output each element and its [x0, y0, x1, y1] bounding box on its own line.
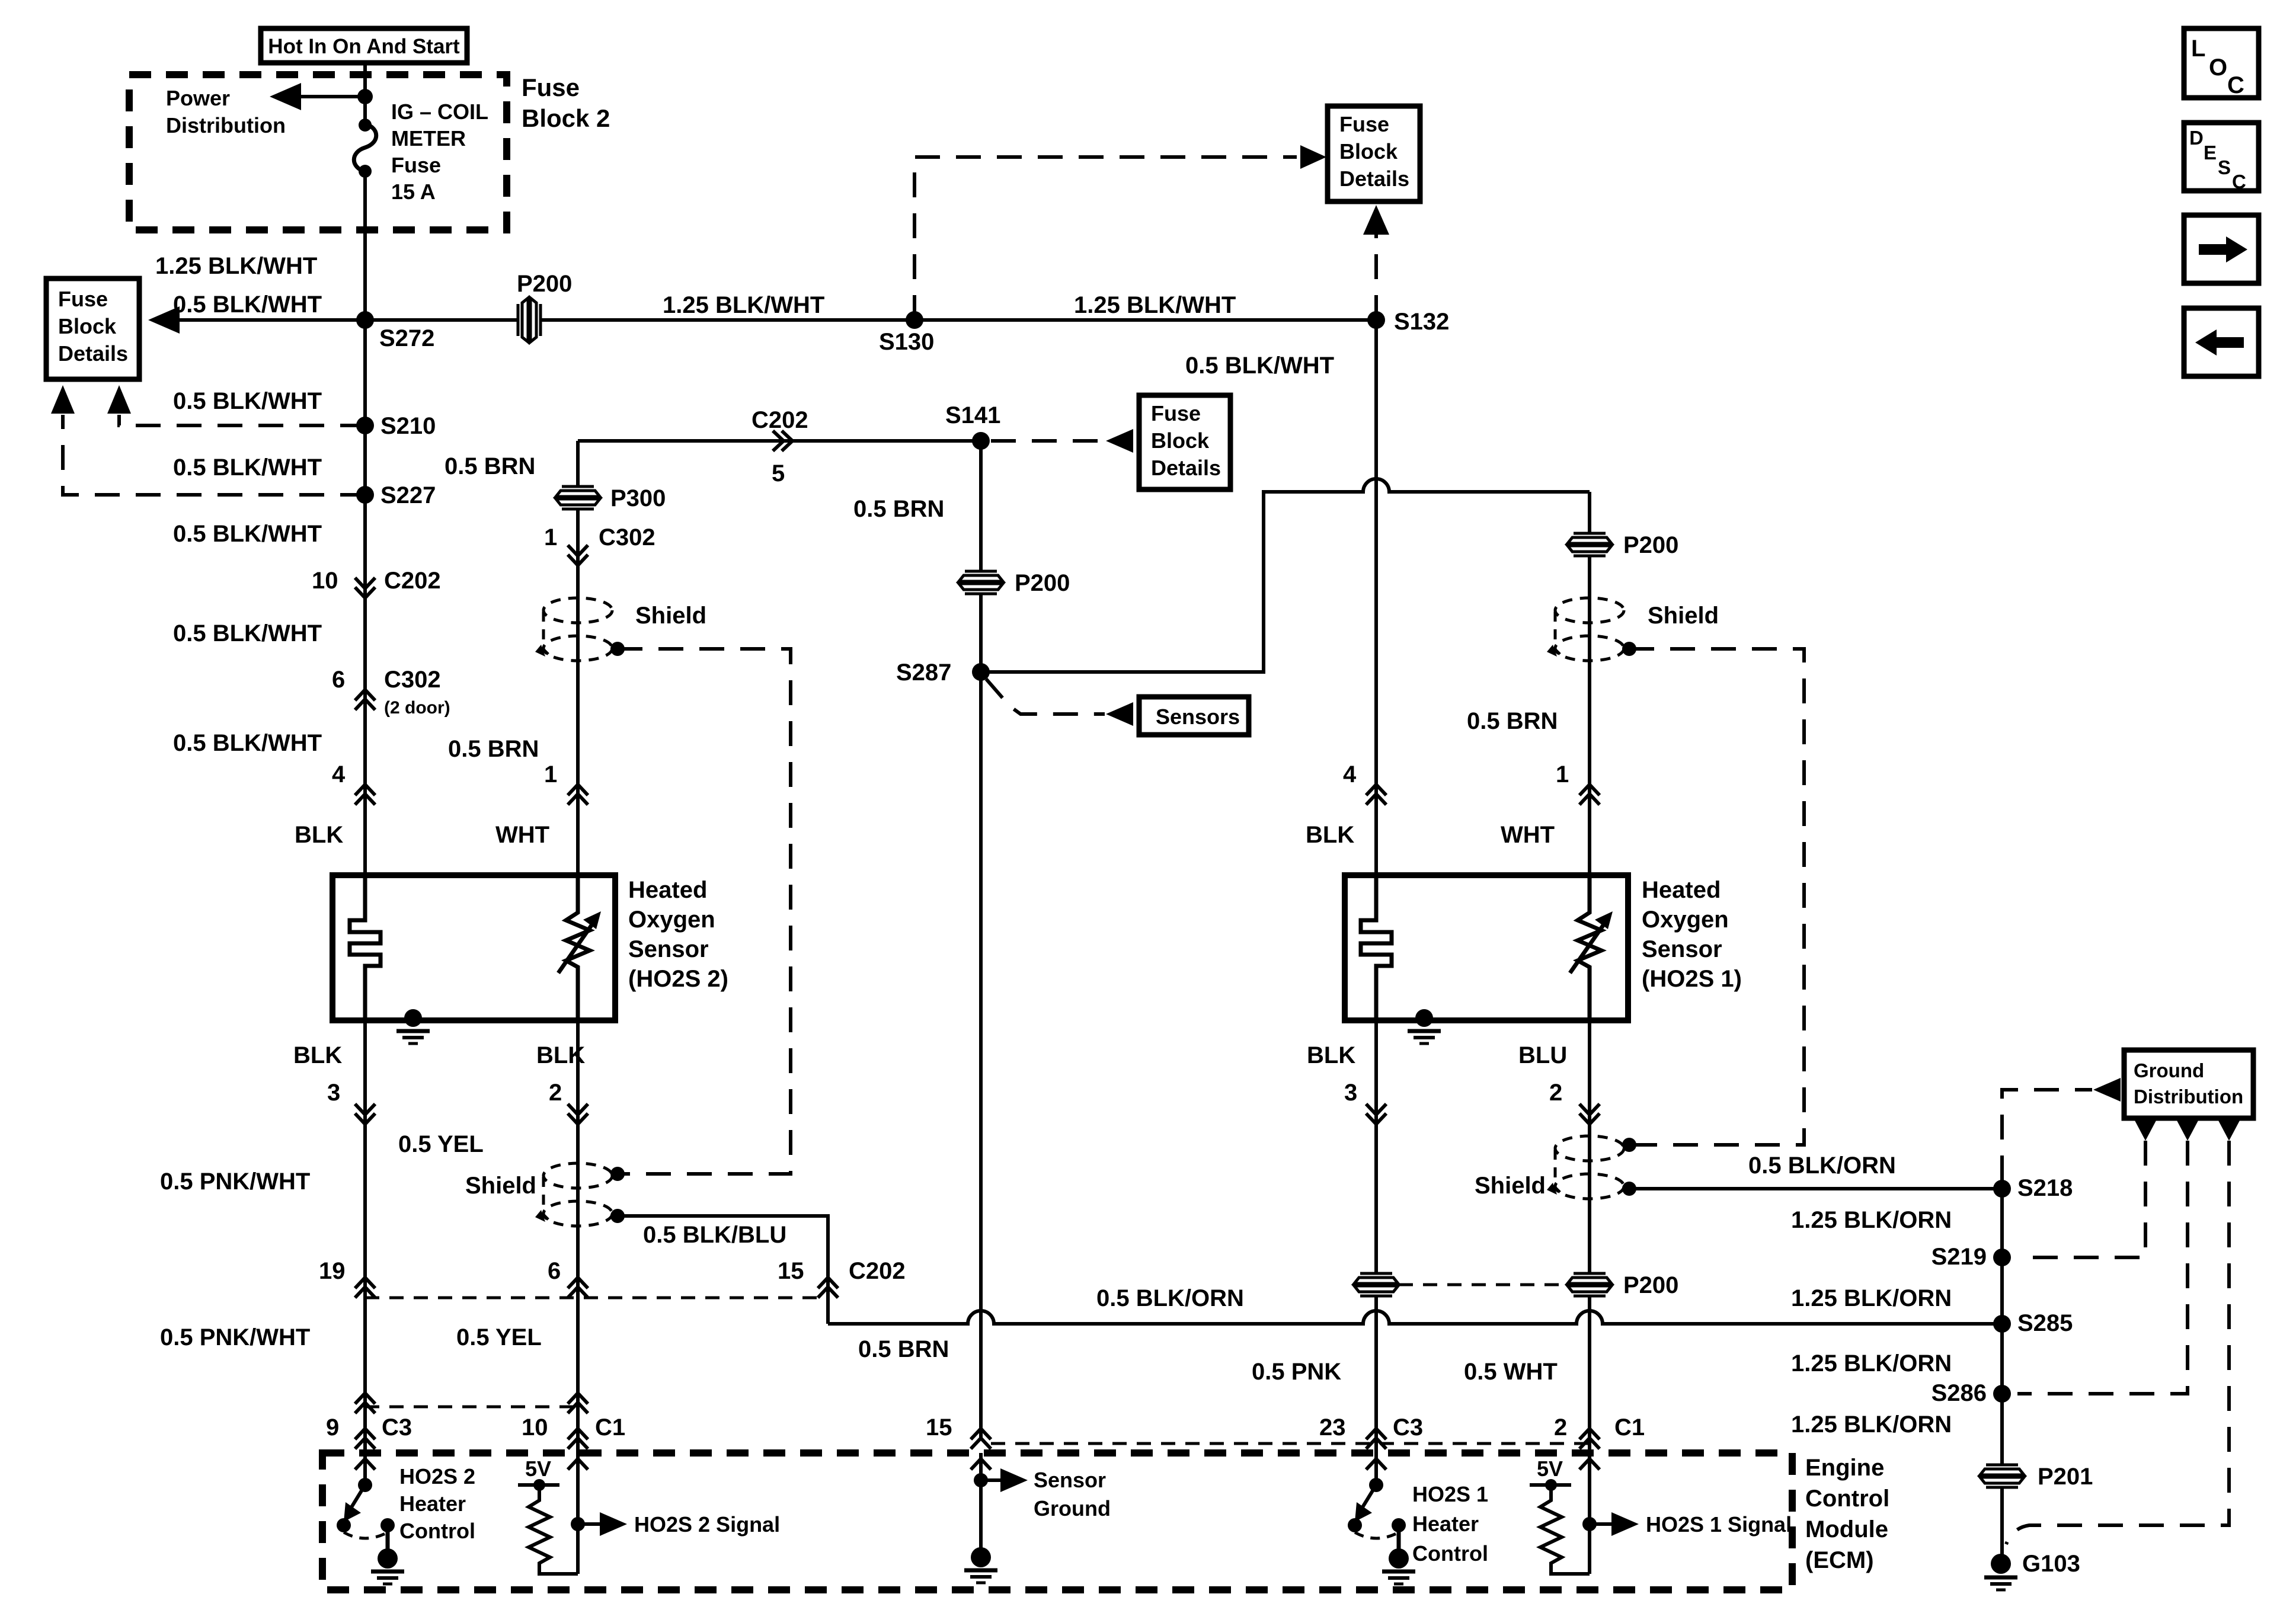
- svg-text:0.5 BLK/WHT: 0.5 BLK/WHT: [173, 388, 322, 414]
- svg-text:0.5 BLK/WHT: 0.5 BLK/WHT: [1185, 353, 1334, 379]
- node S227 with dashed branch to Fuse Block Details: [51, 385, 374, 504]
- svg-text:S141: S141: [945, 402, 1000, 428]
- connector C302 pin 6 (chevron): [332, 667, 450, 718]
- svg-text:S287: S287: [896, 660, 951, 686]
- svg-text:3: 3: [1344, 1080, 1357, 1106]
- node S130: [906, 311, 923, 329]
- svg-text:Sensor: Sensor: [628, 936, 709, 962]
- svg-text:Block: Block: [1339, 139, 1398, 164]
- ECM pins 15 / 23 C3 / 2 C1 (chevrons + dashed link): [926, 1414, 1645, 1449]
- wire A: pin 3 down to ECM: [363, 1020, 367, 1453]
- node S285: [1993, 1315, 2011, 1333]
- svg-text:C: C: [2232, 171, 2246, 193]
- label box: Sensors: [1139, 697, 1249, 735]
- svg-text:0.5 BLK/ORN: 0.5 BLK/ORN: [1748, 1153, 1896, 1179]
- labels BLK 3 / BLU 2: [1307, 1042, 1600, 1124]
- svg-text:3: 3: [327, 1080, 340, 1106]
- wire: from Hot box down to fuse: [363, 63, 367, 125]
- wire C into ECM: sensor ground: [964, 1453, 1028, 1583]
- svg-text:P200: P200: [1623, 1272, 1678, 1298]
- dashed drop to G103: [2006, 1141, 2229, 1544]
- wire: Power Distribution tee with arrow: [270, 83, 365, 110]
- wire D: pin 3 down to ECM: [1374, 1020, 1378, 1453]
- connector C202 pin 15 (chevron): [778, 1258, 906, 1298]
- wire F: ground bus S218..G103: [2000, 1189, 2004, 1564]
- wire: long 0.5 BLK/ORN to S285 with hops: [828, 1311, 2002, 1324]
- svg-text:HO2S 2: HO2S 2: [399, 1464, 475, 1489]
- ECM dashed border: [322, 1453, 1792, 1590]
- svg-text:0.5 BRN: 0.5 BRN: [448, 736, 539, 762]
- svg-text:10: 10: [312, 568, 338, 594]
- connector P200 pair (wires D and E) with dashed link: [1354, 1272, 1678, 1298]
- svg-text:BLK: BLK: [295, 822, 343, 848]
- svg-text:Heater: Heater: [399, 1491, 466, 1516]
- svg-text:1: 1: [544, 761, 557, 788]
- node: shield dashed dot: [610, 1167, 625, 1181]
- svg-text:Ground: Ground: [2134, 1060, 2204, 1081]
- svg-text:D: D: [2189, 127, 2204, 149]
- svg-text:Shield: Shield: [635, 603, 706, 629]
- ground G103: [1984, 1554, 2017, 1590]
- svg-text:C202: C202: [752, 407, 808, 433]
- svg-text:0.5 BLK/WHT: 0.5 BLK/WHT: [173, 454, 322, 481]
- node: shield drain dot: [1622, 642, 1636, 656]
- svg-text:Heated: Heated: [628, 877, 707, 903]
- svg-text:C3: C3: [382, 1414, 412, 1441]
- svg-text:Block: Block: [1151, 428, 1210, 453]
- svg-text:Fuse: Fuse: [58, 287, 108, 311]
- wire E into ECM with arrow and HO2S 1 Signal tap: [1579, 1453, 1639, 1574]
- svg-text:1.25 BLK/WHT: 1.25 BLK/WHT: [1074, 292, 1236, 318]
- svg-text:5V: 5V: [1537, 1457, 1563, 1481]
- svg-text:0.5 BLK/WHT: 0.5 BLK/WHT: [173, 730, 322, 756]
- svg-text:Oxygen: Oxygen: [628, 907, 715, 933]
- svg-text:1: 1: [544, 524, 557, 550]
- svg-text:5: 5: [772, 460, 785, 486]
- svg-text:Fuse: Fuse: [1151, 401, 1201, 425]
- wire E vertical from S287 branch corner down into HO2S1: [1588, 492, 1591, 875]
- wire: dashed shield link down right side: [618, 649, 791, 1174]
- svg-text:0.5 BRN: 0.5 BRN: [1467, 708, 1558, 734]
- svg-text:S286: S286: [1932, 1380, 1987, 1406]
- svg-text:C202: C202: [849, 1258, 906, 1284]
- svg-text:Sensors: Sensors: [1156, 705, 1240, 729]
- node: shield drain dot: [610, 642, 625, 656]
- label box: Fuse Block Details (top): [1328, 106, 1420, 201]
- arrow (left-pointing) at Sensors box: [1106, 702, 1133, 726]
- svg-text:1.25 BLK/ORN: 1.25 BLK/ORN: [1791, 1411, 1952, 1438]
- labels BLK 3 / BLK 2: [293, 1042, 588, 1124]
- svg-text:6: 6: [548, 1258, 561, 1284]
- svg-text:S272: S272: [379, 325, 434, 351]
- svg-text:L: L: [2191, 36, 2205, 62]
- svg-text:15: 15: [926, 1414, 952, 1441]
- three down arrows under Ground Distribution: [2135, 1121, 2240, 1141]
- connector C302 pin 1 (chevron): [544, 524, 655, 565]
- svg-text:2: 2: [549, 1080, 562, 1106]
- svg-text:1.25 BLK/WHT: 1.25 BLK/WHT: [663, 292, 824, 318]
- box: Heated Oxygen Sensor HO2S 1: [1345, 875, 1628, 1020]
- wire: dashed from S218 up to Ground Distribution: [2002, 1090, 2092, 1180]
- ground inside HO2S1: [1408, 1009, 1441, 1044]
- wire B into ECM with arrow and HO2S 2 Signal tap: [568, 1453, 627, 1574]
- svg-text:Power: Power: [166, 86, 230, 110]
- icon box right arrow: [2184, 215, 2259, 283]
- shield (HO2S1 lower): [1547, 1136, 1624, 1199]
- svg-text:BLK: BLK: [293, 1042, 342, 1068]
- connector C202 pin 5 (chevron on horizontal wire): [752, 407, 808, 486]
- node S286: [1993, 1385, 2011, 1403]
- svg-text:C1: C1: [1614, 1414, 1645, 1441]
- svg-text:(ECM): (ECM): [1805, 1547, 1874, 1573]
- svg-text:Control: Control: [399, 1519, 475, 1543]
- svg-text:Shield: Shield: [465, 1173, 536, 1199]
- label: Fuse Block 2: [522, 73, 610, 132]
- svg-text:P300: P300: [610, 485, 666, 511]
- svg-text:C3: C3: [1393, 1414, 1423, 1441]
- svg-text:WHT: WHT: [495, 822, 549, 848]
- svg-text:0.5 BLK/WHT: 0.5 BLK/WHT: [173, 620, 322, 646]
- svg-text:IG – COIL: IG – COIL: [391, 100, 488, 124]
- svg-text:P201: P201: [2038, 1464, 2093, 1490]
- svg-text:Distribution: Distribution: [2134, 1086, 2243, 1108]
- svg-text:0.5 PNK: 0.5 PNK: [1252, 1359, 1341, 1385]
- svg-text:Shield: Shield: [1648, 603, 1719, 629]
- wire: horizontal from B corner to S141: [578, 439, 981, 443]
- svg-text:15 A: 15 A: [391, 180, 436, 204]
- svg-text:0.5 BLK/BLU: 0.5 BLK/BLU: [643, 1222, 786, 1248]
- HO2S2 heater control switch: [337, 1453, 404, 1584]
- dashed drop to S286: [2017, 1141, 2188, 1394]
- svg-text:10: 10: [522, 1414, 548, 1441]
- wire: dashed hook from S287 to Sensors box: [986, 679, 1105, 714]
- svg-text:C302: C302: [599, 524, 655, 550]
- connector C202 pins 19/6 (chevrons + dashed link): [319, 1258, 828, 1298]
- label box: Fuse Block Details (middle): [1139, 395, 1230, 489]
- heater element (HO2S1): [1361, 875, 1392, 1020]
- svg-text:METER: METER: [391, 126, 466, 151]
- svg-text:Oxygen: Oxygen: [1642, 907, 1729, 933]
- node S132: [1367, 311, 1385, 329]
- wire: 0.5 BLK/BLU from shield to C202 pin 15: [618, 1216, 828, 1324]
- svg-text:Fuse: Fuse: [1339, 112, 1389, 136]
- icon box LOC: [2184, 28, 2259, 98]
- wire: main horizontal feed at y=540 with left arrow: [148, 306, 1376, 334]
- svg-text:1.25 BLK/ORN: 1.25 BLK/ORN: [1791, 1285, 1952, 1311]
- label: HO2S 2 Heater Control: [399, 1464, 475, 1543]
- svg-text:Ground: Ground: [1034, 1496, 1111, 1521]
- connector P200 (wire E top): [1568, 532, 1611, 557]
- svg-text:HO2S 1: HO2S 1: [1412, 1482, 1488, 1506]
- label: Heated Oxygen Sensor (HO2S 2): [628, 877, 728, 992]
- node S272: [356, 311, 374, 329]
- svg-text:BLK: BLK: [536, 1042, 585, 1068]
- svg-text:0.5 BRN: 0.5 BRN: [445, 453, 535, 479]
- svg-text:P200: P200: [517, 271, 572, 297]
- svg-text:S227: S227: [380, 482, 436, 508]
- svg-text:P200: P200: [1623, 532, 1678, 558]
- svg-text:S130: S130: [879, 329, 934, 355]
- 5V pull-up resistor (HO2S2): [518, 1457, 578, 1574]
- svg-text:0.5 BLK/WHT: 0.5 BLK/WHT: [173, 292, 322, 318]
- svg-text:C1: C1: [595, 1414, 625, 1441]
- label box: Ground Distribution: [2124, 1050, 2253, 1118]
- svg-text:0.5 YEL: 0.5 YEL: [456, 1324, 542, 1350]
- icon box left arrow: [2184, 308, 2259, 376]
- svg-text:HO2S 2 Signal: HO2S 2 Signal: [634, 1512, 780, 1537]
- svg-text:9: 9: [326, 1414, 339, 1441]
- connector P200 (wire C): [959, 570, 1003, 595]
- box: Heated Oxygen Sensor HO2S 2: [332, 875, 615, 1020]
- svg-text:S132: S132: [1394, 309, 1449, 335]
- label: Power Distribution: [166, 86, 286, 137]
- svg-text:Control: Control: [1412, 1541, 1488, 1566]
- node: junction to Power Distribution: [357, 89, 373, 104]
- 5V pull-up resistor (HO2S1): [1530, 1457, 1590, 1574]
- wire B: pin 2 down to ECM: [576, 1020, 580, 1453]
- svg-text:0.5 BLK/ORN: 0.5 BLK/ORN: [1096, 1285, 1244, 1311]
- svg-text:HO2S 1 Signal: HO2S 1 Signal: [1646, 1512, 1792, 1537]
- svg-text:(HO2S 1): (HO2S 1): [1642, 966, 1742, 992]
- arrow (left-pointing) at middle Fuse Block Details: [1106, 429, 1133, 453]
- shield (HO2S1 upper): [1547, 598, 1624, 661]
- node: shield drain dot (to BLK/BLU): [610, 1209, 625, 1223]
- svg-text:4: 4: [1343, 761, 1357, 788]
- wire D vertical: [1374, 320, 1378, 875]
- svg-text:WHT: WHT: [1501, 822, 1555, 848]
- fuse block 2 dashed box: [129, 75, 507, 230]
- wire: S287 branch right, up and over to HO2S1 WHT wire (with hop over S132 wire): [981, 479, 1590, 672]
- connector P201: [1980, 1464, 2024, 1489]
- wire: dashed riser from S132 up to box with arrow: [1363, 205, 1389, 320]
- svg-text:4: 4: [332, 761, 346, 788]
- connector pin 1 (chevron into HO2S1 right): [1556, 761, 1600, 805]
- wire: dashed from S141 to Fuse Block Details (middle): [991, 439, 1106, 443]
- svg-text:Sensor: Sensor: [1034, 1468, 1106, 1492]
- icon box DESC: [2184, 123, 2259, 193]
- node S219: [1993, 1249, 2011, 1266]
- svg-text:Block: Block: [58, 314, 117, 338]
- connector P200 (on horizontal wire): [517, 298, 542, 342]
- svg-text:Shield: Shield: [1475, 1173, 1546, 1199]
- fuse F: IG-COIL METER Fuse 15A: [354, 119, 376, 178]
- svg-text:Heated: Heated: [1642, 877, 1721, 903]
- node S218: [1993, 1180, 2011, 1198]
- connector C202 pin 10 (chevron): [312, 568, 441, 598]
- heater element (HO2S2): [350, 875, 380, 1020]
- svg-text:E: E: [2204, 142, 2217, 164]
- svg-text:Heater: Heater: [1412, 1512, 1479, 1536]
- shield (HO2S2 lower): [535, 1163, 612, 1226]
- wire C vertical from S141 down to ECM: [979, 441, 983, 1439]
- svg-text:1.25 BLK/ORN: 1.25 BLK/ORN: [1791, 1207, 1952, 1233]
- svg-text:0.5 PNK/WHT: 0.5 PNK/WHT: [160, 1324, 310, 1350]
- connector pin 4 (chevron into HO2S1): [1343, 761, 1386, 805]
- svg-text:1.25 BLK/ORN: 1.25 BLK/ORN: [1791, 1350, 1952, 1377]
- wire B vertical down into HO2S2: [576, 441, 580, 875]
- svg-text:Details: Details: [1151, 456, 1221, 480]
- svg-text:Fuse: Fuse: [391, 153, 441, 177]
- svg-text:C202: C202: [384, 568, 441, 594]
- connector C3 pin 9 / C1 pin 10 (chevrons + dashed link): [326, 1393, 625, 1449]
- svg-text:Block 2: Block 2: [522, 104, 610, 132]
- svg-text:0.5 PNK/WHT: 0.5 PNK/WHT: [160, 1169, 310, 1195]
- node: shield dashed dot: [1622, 1138, 1636, 1152]
- svg-text:C302: C302: [384, 667, 441, 693]
- sensing element with arrow (HO2S2): [558, 875, 601, 1020]
- svg-text:5V: 5V: [525, 1457, 551, 1481]
- shield (HO2S2 upper): [535, 598, 612, 661]
- svg-text:BLK: BLK: [1306, 822, 1354, 848]
- wire: dashed shield link down right side: [1629, 649, 1804, 1145]
- svg-text:0.5 YEL: 0.5 YEL: [398, 1131, 484, 1157]
- dashed drop to S219: [2017, 1141, 2145, 1257]
- label box: Hot In On And Start: [261, 28, 467, 63]
- svg-text:2: 2: [1554, 1414, 1567, 1441]
- svg-text:S: S: [2218, 156, 2231, 178]
- label: Engine Control Module (ECM): [1805, 1455, 1889, 1573]
- connector P300: [556, 485, 600, 510]
- svg-text:S218: S218: [2017, 1175, 2073, 1201]
- svg-text:S285: S285: [2017, 1310, 2073, 1336]
- svg-text:P200: P200: [1015, 570, 1070, 596]
- svg-text:Hot In On And Start: Hot In On And Start: [268, 35, 460, 58]
- sensing element with arrow (HO2S1): [1570, 875, 1613, 1020]
- svg-text:G103: G103: [2022, 1551, 2080, 1577]
- svg-text:0.5 BRN: 0.5 BRN: [858, 1336, 949, 1362]
- wire: dashed riser from S130 to Fuse Block Details (top): [914, 157, 1297, 320]
- svg-text:6: 6: [332, 667, 345, 693]
- svg-text:C: C: [2227, 72, 2244, 98]
- svg-text:1.25 BLK/WHT: 1.25 BLK/WHT: [155, 253, 317, 279]
- svg-text:Control: Control: [1805, 1486, 1889, 1512]
- svg-text:0.5 BLK/WHT: 0.5 BLK/WHT: [173, 521, 322, 547]
- svg-text:Fuse: Fuse: [522, 73, 580, 101]
- ground inside HO2S2: [396, 1009, 430, 1044]
- label: IG - COIL METER Fuse 15 A: [391, 100, 488, 204]
- svg-text:Details: Details: [1339, 167, 1409, 191]
- svg-text:BLK: BLK: [1307, 1042, 1355, 1068]
- svg-text:Sensor: Sensor: [1642, 936, 1722, 962]
- svg-text:(2 door): (2 door): [384, 698, 450, 718]
- svg-text:(HO2S 2): (HO2S 2): [628, 966, 728, 992]
- svg-text:15: 15: [778, 1258, 804, 1284]
- svg-text:23: 23: [1319, 1414, 1346, 1441]
- label box: Fuse Block Details (left): [46, 279, 139, 379]
- svg-text:S219: S219: [1932, 1244, 1987, 1270]
- HO2S1 heater control switch: [1348, 1453, 1415, 1584]
- svg-text:2: 2: [1549, 1080, 1562, 1106]
- svg-text:BLU: BLU: [1518, 1042, 1567, 1068]
- node S141: [972, 432, 990, 450]
- svg-text:1: 1: [1556, 761, 1569, 788]
- svg-text:0.5 BRN: 0.5 BRN: [853, 496, 944, 522]
- wire E: pin 2 down to ECM: [1588, 1020, 1591, 1453]
- svg-text:19: 19: [319, 1258, 346, 1284]
- node S287: [972, 663, 990, 681]
- node: shield drain dot (to S218): [1622, 1182, 1636, 1196]
- connector pin 1 (chevron into HO2S2 right): [544, 761, 588, 805]
- connector pin 4 (chevron into HO2S2): [332, 761, 375, 805]
- svg-text:Details: Details: [58, 341, 128, 366]
- svg-text:Distribution: Distribution: [166, 113, 286, 137]
- svg-text:Module: Module: [1805, 1516, 1888, 1542]
- arrow (left-pointing) at Ground Distribution: [2093, 1078, 2121, 1102]
- arrow into Fuse Block Details box: [1300, 145, 1326, 169]
- label: Sensor Ground: [1034, 1468, 1111, 1521]
- wire: fuse output down to S272 and on to HO2S2: [363, 171, 367, 875]
- label: HO2S 1 Heater Control: [1412, 1482, 1488, 1566]
- svg-text:Engine: Engine: [1805, 1455, 1884, 1481]
- wire: 0.5 BLK/ORN from shield to S218: [1629, 1187, 2002, 1190]
- svg-text:S210: S210: [380, 413, 436, 439]
- svg-text:0.5 WHT: 0.5 WHT: [1464, 1359, 1558, 1385]
- svg-text:O: O: [2209, 55, 2227, 81]
- label: Heated Oxygen Sensor (HO2S 1): [1642, 877, 1742, 992]
- node S210 with dashed branch to Fuse Block Details: [107, 385, 374, 434]
